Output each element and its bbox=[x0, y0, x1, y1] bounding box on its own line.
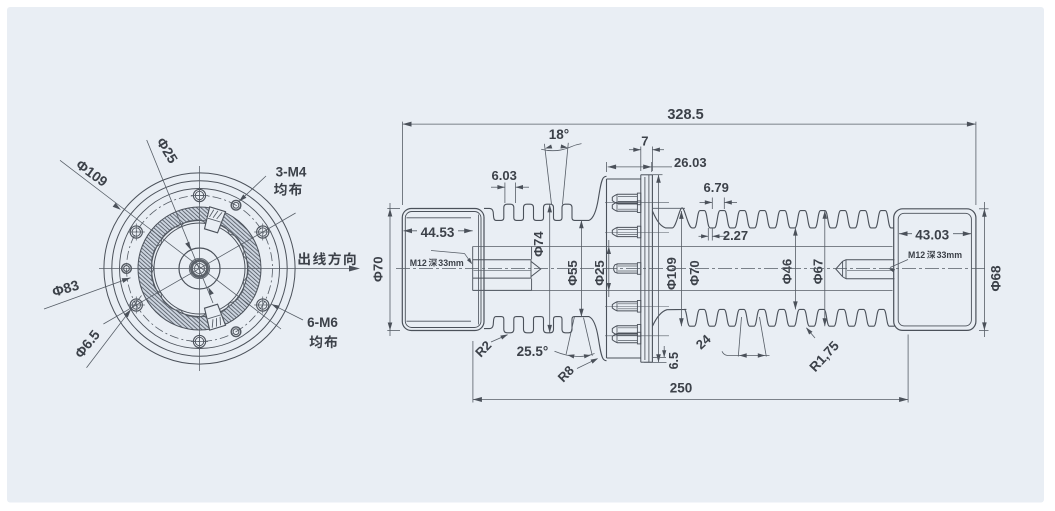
svg-text:6.79: 6.79 bbox=[704, 180, 729, 195]
dim phi68 bbox=[979, 208, 989, 210]
svg-text:Φ25: Φ25 bbox=[592, 260, 607, 286]
dim phi83 bbox=[44, 278, 131, 309]
bore lug upper bbox=[205, 207, 226, 233]
dim 44.53 bbox=[404, 230, 473, 232]
svg-text:33mm: 33mm bbox=[438, 258, 464, 268]
dim 25.5 deg bbox=[566, 317, 574, 354]
dim phi6.5 bbox=[87, 296, 142, 368]
left stud M12 bbox=[473, 259, 531, 261]
flange studs bbox=[605, 201, 669, 203]
bore lug lower bbox=[205, 304, 226, 330]
svg-text:7: 7 bbox=[641, 133, 648, 148]
svg-text:Φ109: Φ109 bbox=[664, 257, 679, 290]
flange outer circles and clamp ring bbox=[104, 173, 295, 364]
svg-text:Φ74: Φ74 bbox=[531, 231, 546, 257]
svg-text:6.03: 6.03 bbox=[492, 168, 517, 183]
dim phi70 left cup bbox=[387, 208, 400, 210]
flange centerlines bbox=[99, 268, 352, 270]
flange disc and plate bbox=[606, 179, 608, 358]
right terminal cup bbox=[894, 209, 976, 331]
dim R8 leader bbox=[577, 359, 597, 369]
dim phi46 bbox=[794, 228, 796, 310]
dim 26.03 bbox=[606, 162, 608, 172]
dim R2 leader bbox=[491, 335, 508, 342]
label 3-M4 bbox=[239, 176, 266, 202]
svg-text:Φ68: Φ68 bbox=[989, 265, 1004, 292]
svg-text:Φ46: Φ46 bbox=[779, 259, 794, 285]
svg-text:6-M6: 6-M6 bbox=[307, 315, 338, 330]
dim 43.03 bbox=[899, 233, 971, 235]
left boss phi25 bbox=[472, 247, 474, 291]
left bellows top profile bbox=[484, 176, 607, 220]
dim phi74 bbox=[549, 204, 551, 333]
svg-text:Φ67: Φ67 bbox=[811, 259, 826, 285]
dim 6.5 bbox=[653, 356, 666, 358]
dim 6.03 bbox=[504, 183, 506, 204]
svg-text:2.27: 2.27 bbox=[723, 228, 748, 243]
svg-text:44.53: 44.53 bbox=[421, 225, 455, 240]
svg-text:43.03: 43.03 bbox=[915, 227, 949, 242]
conductor phi25 lines bbox=[473, 246, 893, 248]
dim 24 deg bbox=[738, 317, 741, 357]
dim 6.79 bbox=[711, 198, 713, 210]
svg-text:Φ70: Φ70 bbox=[687, 260, 702, 286]
dim phi109 bbox=[652, 174, 662, 176]
center hole circles bbox=[179, 248, 220, 289]
label outlet direction bbox=[349, 266, 360, 272]
svg-text:250: 250 bbox=[670, 381, 693, 396]
svg-text:33mm: 33mm bbox=[937, 250, 963, 260]
dim phi70 right bbox=[653, 207, 685, 209]
left terminal cup bbox=[402, 209, 484, 331]
side view main axis centerline bbox=[396, 268, 988, 270]
bolt holes 6-M6 bbox=[257, 226, 269, 238]
svg-text:3-M4: 3-M4 bbox=[276, 165, 307, 180]
svg-text:328.5: 328.5 bbox=[667, 107, 703, 123]
svg-text:M12: M12 bbox=[908, 250, 925, 260]
right stud M12 bbox=[846, 259, 895, 261]
svg-text:Φ70: Φ70 bbox=[370, 256, 385, 282]
dim 2.27 bbox=[707, 228, 709, 241]
dim phi67 bbox=[824, 211, 826, 326]
left bellows bottom profile bbox=[484, 317, 607, 361]
svg-text:6.5: 6.5 bbox=[667, 352, 681, 369]
dim 250 bbox=[472, 341, 474, 403]
dim 328.5 bbox=[402, 122, 404, 205]
svg-text:25.5°: 25.5° bbox=[517, 344, 549, 359]
dim phi55 bbox=[580, 220, 582, 316]
dim phi25 leader bbox=[147, 140, 213, 303]
right bellows top profile bbox=[652, 208, 893, 228]
screw holes 3-M4 bbox=[231, 200, 241, 210]
right bellows bottom profile bbox=[652, 309, 901, 326]
svg-text:18°: 18° bbox=[549, 127, 569, 142]
svg-text:26.03: 26.03 bbox=[674, 155, 707, 170]
svg-text:Φ55: Φ55 bbox=[565, 260, 580, 286]
dim phi25 bbox=[608, 240, 610, 297]
label 6-M6 bbox=[272, 304, 304, 320]
dim 7 bbox=[640, 147, 642, 172]
svg-text:M12: M12 bbox=[410, 258, 427, 268]
dim R1.75 leader bbox=[807, 328, 816, 338]
dim 18 deg bbox=[544, 144, 551, 205]
dim phi109 label bbox=[113, 203, 121, 210]
